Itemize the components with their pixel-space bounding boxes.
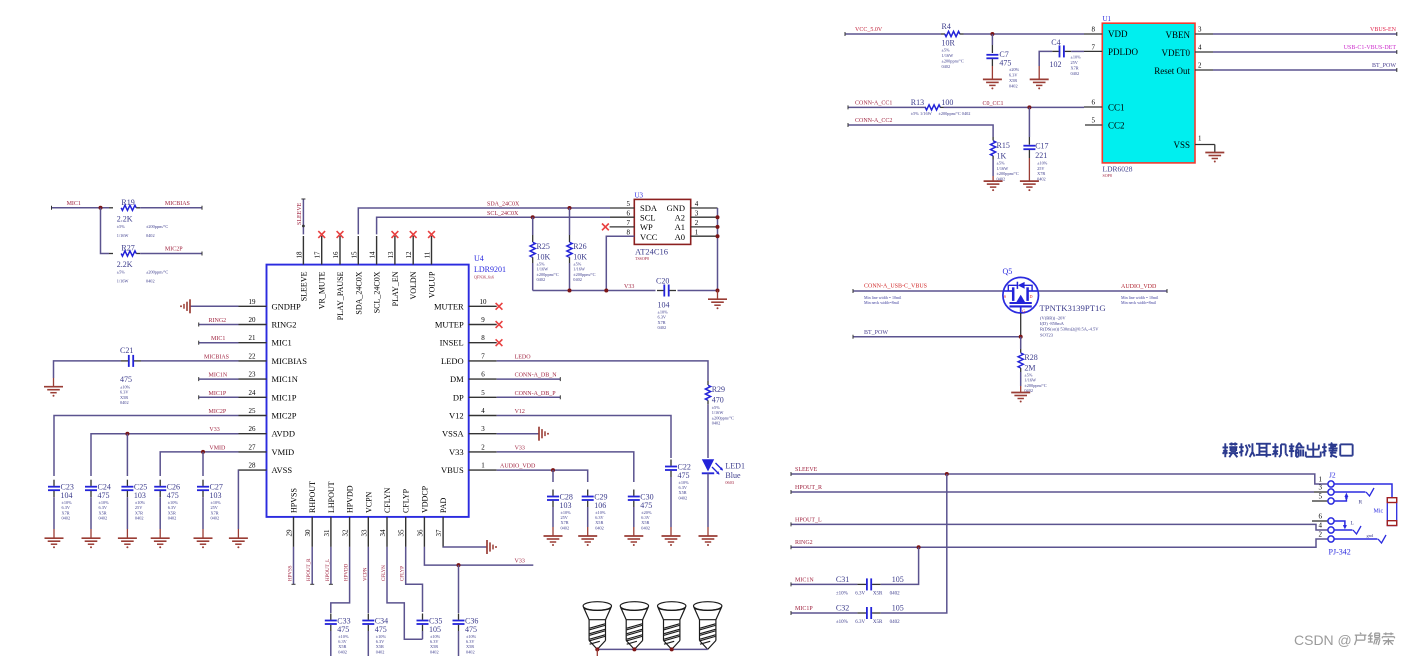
svg-text:104: 104: [658, 301, 670, 310]
svg-text:6: 6: [481, 371, 485, 379]
ground C23: [45, 537, 64, 539]
U1 pin stubs right: [1195, 33, 1213, 35]
svg-text:0402: 0402: [641, 525, 650, 530]
capacitor C26: [154, 486, 166, 488]
svg-text:LDR9201: LDR9201: [474, 265, 506, 274]
wire C32 to SLEEVE: [881, 474, 947, 613]
junction gate/BT_POW: [1019, 335, 1023, 339]
svg-text:VBUS-EN: VBUS-EN: [1370, 27, 1397, 33]
resistor R26: [568, 206, 572, 210]
svg-text:14: 14: [369, 251, 377, 259]
svg-text:8: 8: [627, 229, 631, 237]
wire MIC2P to C23: [54, 416, 239, 477]
capacitor C35: [417, 620, 429, 622]
svg-text:0402: 0402: [62, 516, 71, 521]
svg-text:13: 13: [387, 251, 395, 259]
svg-text:C21: C21: [120, 346, 133, 355]
svg-text:X7R: X7R: [1071, 66, 1079, 71]
svg-text:102: 102: [1050, 60, 1062, 69]
U1 VSS to ground: [1195, 144, 1215, 146]
svg-text:0402: 0402: [430, 649, 439, 654]
svg-text:SLEEVE: SLEEVE: [795, 467, 818, 473]
svg-text:10R: 10R: [942, 39, 956, 48]
svg-text:37: 37: [435, 529, 443, 537]
svg-text:MIC2P: MIC2P: [272, 411, 297, 421]
wire RING2 stub: [199, 324, 239, 326]
svg-text:V12: V12: [449, 411, 464, 421]
svg-text:V33: V33: [515, 559, 525, 565]
resistor R4: [941, 33, 945, 35]
LED LED1: [702, 458, 715, 460]
svg-text:C32: C32: [836, 604, 849, 613]
wire V33 rail (24C16): [533, 290, 656, 292]
svg-text:±5% 1/16W: ±5% 1/16W: [911, 111, 933, 116]
junction MIC1/R27: [99, 206, 103, 210]
svg-text:SLEEVE: SLEEVE: [299, 271, 308, 301]
svg-text:±5%: ±5%: [997, 161, 1006, 166]
wire SCL_24C0X: [377, 217, 610, 234]
svg-text:MIC1: MIC1: [272, 338, 292, 348]
svg-text:A2: A2: [675, 213, 685, 223]
U3 left pin stubs: [610, 207, 634, 209]
svg-text:2.2K: 2.2K: [117, 260, 133, 269]
svg-text:2M: 2M: [1024, 364, 1035, 373]
svg-text:105: 105: [892, 604, 904, 613]
svg-text:VCPN: VCPN: [363, 567, 368, 581]
wire BT_POW: [853, 336, 1021, 338]
svg-text:1: 1: [481, 462, 485, 470]
resistor R28: [1020, 337, 1022, 349]
wire AVSS down: [237, 470, 239, 529]
wire HPVDD to C33: [331, 547, 350, 613]
svg-text:±5%: ±5%: [942, 48, 951, 53]
svg-text:V33: V33: [449, 447, 464, 457]
ground LED1: [699, 535, 718, 537]
svg-text:0402: 0402: [120, 400, 129, 405]
svg-text:±200ppm/°C: ±200ppm/°C: [146, 224, 168, 229]
svg-text:D: D: [1030, 294, 1033, 299]
svg-text:RING2: RING2: [209, 318, 227, 324]
Mic element: [1387, 498, 1396, 526]
svg-text:6.3V: 6.3V: [855, 591, 865, 596]
junction R26 on V33: [568, 289, 572, 293]
svg-text:±5%: ±5%: [117, 224, 126, 229]
wire CFLYN to C35 bottom: [387, 547, 423, 639]
capacitor C34: [362, 620, 374, 622]
svg-text:PJ-342: PJ-342: [1329, 548, 1351, 557]
wire V33 to C30: [497, 452, 634, 482]
svg-text:R27: R27: [121, 244, 134, 253]
wire LEDO: [497, 361, 708, 381]
svg-text:12: 12: [405, 251, 413, 259]
svg-text:CC2: CC2: [1108, 121, 1125, 131]
svg-text:HPVDD: HPVDD: [345, 563, 350, 581]
svg-text:MICBIAS: MICBIAS: [272, 356, 308, 366]
svg-text:36: 36: [416, 529, 424, 537]
svg-text:(V(BR)) -20V: (V(BR)) -20V: [1040, 316, 1066, 321]
svg-text:U3: U3: [635, 191, 644, 199]
svg-text:INSEL: INSEL: [440, 338, 464, 348]
svg-text:0402: 0402: [595, 525, 604, 530]
svg-text:3: 3: [481, 425, 485, 433]
svg-text:104: 104: [61, 491, 73, 500]
junction VBUS/C28: [551, 468, 555, 472]
svg-text:2: 2: [1319, 531, 1323, 539]
capacitor C32: [866, 607, 868, 619]
U4 right pin stubs: [469, 305, 497, 307]
junction A1: [716, 225, 720, 229]
capacitor C31: [866, 578, 868, 590]
svg-text:USB-C1-VBUS-DET: USB-C1-VBUS-DET: [1344, 45, 1397, 51]
svg-text:X5R: X5R: [873, 591, 883, 596]
ground C28: [544, 535, 563, 537]
ground C7: [983, 78, 1002, 80]
svg-text:MUTER: MUTER: [434, 301, 464, 311]
wire R29 to LED1: [707, 404, 709, 458]
wire HPOUT_R stub (pin30): [311, 547, 313, 584]
svg-text:0402: 0402: [146, 279, 155, 284]
svg-text:6: 6: [1092, 99, 1096, 107]
svg-text:25: 25: [249, 407, 257, 415]
svg-text:VDD: VDD: [1108, 29, 1128, 39]
svg-text:PDLDO: PDLDO: [1108, 47, 1139, 57]
svg-text:105: 105: [429, 625, 441, 634]
wire CONN-A_USB-C_VBUS: [853, 290, 1003, 292]
svg-text:Min neck width=8mil: Min neck width=8mil: [864, 300, 900, 305]
svg-text:VSSA: VSSA: [442, 429, 465, 439]
svg-text:9: 9: [481, 316, 485, 324]
svg-text:4: 4: [695, 200, 699, 208]
junction SLEEVE/C32: [945, 472, 949, 476]
junction AVDD/C25: [125, 432, 129, 436]
no-connect X pin13: [392, 231, 399, 238]
svg-text:AVSS: AVSS: [272, 465, 293, 475]
svg-text:MICBIAS: MICBIAS: [165, 201, 190, 207]
svg-text:475: 475: [167, 491, 179, 500]
wire VBUS-EN: [1213, 33, 1397, 35]
svg-text:2.2K: 2.2K: [117, 215, 133, 224]
ground AVSS: [229, 537, 248, 539]
svg-text:28: 28: [249, 462, 257, 470]
svg-text:R26: R26: [573, 242, 586, 251]
svg-text:C31: C31: [836, 575, 849, 584]
svg-text:±10%: ±10%: [836, 591, 848, 596]
capacitor C17: [1028, 107, 1030, 137]
svg-text:34: 34: [379, 529, 387, 537]
svg-text:RING2: RING2: [272, 320, 297, 330]
wire U3 right tie-down: [717, 208, 719, 291]
wire GNDHP to ground: [190, 305, 239, 307]
wire C33 below: [330, 631, 332, 656]
junction screw1: [595, 647, 599, 651]
capacitor C28: [547, 496, 559, 498]
chip U1 LDR6028: [1102, 23, 1195, 163]
svg-text:Reset Out: Reset Out: [1154, 66, 1190, 76]
capacitor C36: [453, 620, 465, 622]
svg-text:HPVSS: HPVSS: [289, 565, 294, 581]
svg-text:475: 475: [337, 625, 349, 634]
svg-text:SCL_24C0X: SCL_24C0X: [487, 211, 519, 217]
svg-text:SCL: SCL: [640, 213, 656, 223]
junction A0: [716, 234, 720, 238]
svg-text:PAD: PAD: [439, 498, 448, 513]
svg-text:0402: 0402: [890, 620, 901, 625]
resistor R19: [109, 207, 113, 209]
wire R27 to MIC2P: [140, 253, 202, 255]
svg-text:0402: 0402: [573, 277, 582, 282]
svg-text:VR_MUTE: VR_MUTE: [318, 271, 327, 309]
wire screw gnd drop: [596, 649, 598, 656]
svg-text:VBEN: VBEN: [1166, 30, 1191, 40]
svg-text:CONN-A_DB_P: CONN-A_DB_P: [515, 391, 557, 397]
svg-text:0402: 0402: [376, 649, 385, 654]
svg-text:5: 5: [1319, 493, 1323, 501]
svg-text:±10%: ±10%: [1071, 55, 1082, 60]
wire VCPN to C34: [367, 547, 369, 613]
svg-text:U4: U4: [474, 254, 484, 263]
svg-text:RHPOUT: RHPOUT: [308, 481, 317, 513]
wire LED1 to ground: [707, 473, 709, 527]
wire MIC1 net: [52, 207, 110, 209]
svg-text:SOP8: SOP8: [1103, 173, 1112, 178]
junction C20 right: [716, 289, 720, 293]
wire junction to C28: [552, 470, 554, 482]
ground GNDHP (sideways): [189, 299, 191, 313]
svg-text:475: 475: [465, 625, 477, 634]
wire VDDCP V33: [424, 547, 533, 565]
resistor R15: [992, 137, 994, 141]
svg-text:SLEEVE: SLEEVE: [297, 202, 303, 225]
svg-text:0402: 0402: [99, 516, 108, 521]
svg-text:TPNTK3139PT1G: TPNTK3139PT1G: [1040, 303, 1106, 313]
svg-text:475: 475: [640, 501, 652, 510]
wire AVDD V33 to C24: [91, 434, 239, 476]
svg-text:23: 23: [249, 371, 257, 379]
svg-text:C20: C20: [656, 277, 669, 286]
junction A2: [716, 215, 720, 219]
svg-text:MIC1: MIC1: [211, 336, 225, 342]
no-connect X pin10 MUTER: [496, 303, 503, 310]
svg-text:I(D) -850mA: I(D) -850mA: [1040, 321, 1065, 326]
ground C22: [662, 535, 681, 537]
svg-text:105: 105: [892, 575, 904, 584]
wire RING2 net: [791, 539, 1328, 547]
svg-text:LHPOUT: LHPOUT: [327, 481, 336, 513]
svg-text:MIC2P: MIC2P: [209, 409, 227, 415]
svg-text:VMID: VMID: [272, 447, 295, 457]
J2 pin stubs: [1314, 491, 1328, 493]
no-connect X pin16: [337, 231, 344, 238]
svg-text:MIC1: MIC1: [67, 201, 81, 207]
wire VCC_5.0V net: [845, 33, 941, 35]
ground C26: [151, 537, 170, 539]
wire C4 left to ground: [1039, 51, 1052, 66]
svg-text:5: 5: [1092, 117, 1096, 125]
U4 top pin stubs: [302, 236, 304, 265]
svg-text:R25: R25: [537, 242, 550, 251]
svg-text:VMID: VMID: [209, 445, 226, 451]
svg-text:6: 6: [627, 210, 631, 218]
svg-text:VOLUP: VOLUP: [428, 271, 437, 298]
svg-text:TSSOP8: TSSOP8: [635, 256, 649, 261]
J2 pin pads: [1328, 481, 1334, 487]
svg-text:32: 32: [342, 529, 350, 537]
svg-text:A0: A0: [675, 232, 685, 242]
svg-text:VBUS: VBUS: [441, 465, 464, 475]
svg-text:CSDN @: CSDN @: [1294, 632, 1352, 648]
svg-text:1: 1: [1319, 476, 1323, 484]
svg-text:4: 4: [1198, 44, 1202, 52]
svg-text:BT_POW: BT_POW: [864, 330, 888, 336]
svg-text:7: 7: [627, 219, 631, 227]
svg-text:MIC1N: MIC1N: [209, 373, 228, 379]
screw 2: [620, 602, 648, 611]
wire HPOUT_L: [791, 524, 1328, 530]
svg-text:DP: DP: [453, 392, 464, 402]
svg-text:R28: R28: [1024, 353, 1037, 362]
wire C34 below: [367, 631, 369, 656]
svg-text:X5R: X5R: [1009, 78, 1017, 83]
svg-text:25V: 25V: [1071, 60, 1079, 65]
svg-text:30: 30: [304, 529, 312, 537]
capacitor C24: [85, 486, 97, 488]
op-amp U4 outline: [267, 265, 469, 517]
svg-text:Blue: Blue: [725, 471, 741, 480]
svg-text:1: 1: [1198, 135, 1202, 143]
capacitor C20: [663, 285, 665, 297]
svg-text:V33: V33: [624, 284, 634, 290]
resistor R25: [531, 215, 535, 219]
svg-text:475: 475: [678, 471, 690, 480]
junction VDDCP/C36: [457, 563, 461, 567]
svg-text:106: 106: [594, 501, 606, 510]
svg-text:HPVDD: HPVDD: [346, 485, 355, 513]
wire MIC1 stub (pin21): [199, 342, 239, 344]
wire C4 to U1 PDLDO: [1071, 50, 1084, 52]
svg-text:1/16W: 1/16W: [117, 279, 130, 284]
svg-text:5: 5: [481, 389, 485, 397]
svg-text:475: 475: [375, 625, 387, 634]
U1 pin stubs left: [1084, 33, 1102, 35]
svg-text:6: 6: [1319, 513, 1323, 521]
svg-text:SDA_24C0X: SDA_24C0X: [354, 271, 363, 314]
svg-text:1/16W: 1/16W: [117, 233, 130, 238]
transistor Q5: [1003, 277, 1039, 313]
svg-text:CFLYP: CFLYP: [401, 566, 406, 581]
svg-text:0402: 0402: [1071, 71, 1080, 76]
svg-text:HPOUT_L: HPOUT_L: [795, 517, 822, 523]
svg-text:0603: 0603: [725, 480, 734, 485]
svg-text:MIC1P: MIC1P: [795, 606, 813, 612]
wire MIC1P stub: [199, 396, 239, 398]
svg-text:MUTEP: MUTEP: [435, 320, 464, 330]
capacitor C25: [121, 486, 133, 488]
svg-text:V33: V33: [209, 427, 219, 433]
svg-text:0402: 0402: [338, 649, 347, 654]
svg-text:±200ppm/°C: ±200ppm/°C: [997, 171, 1019, 176]
svg-text:4: 4: [481, 407, 485, 415]
svg-text:MIC1N: MIC1N: [795, 577, 814, 583]
svg-text:2: 2: [481, 443, 485, 451]
J2 pin4 L contact: [1334, 529, 1352, 531]
svg-text:35: 35: [398, 529, 406, 537]
svg-text:LEDO: LEDO: [441, 356, 464, 366]
svg-text:CONN-A_DB_N: CONN-A_DB_N: [515, 373, 558, 379]
svg-text:8: 8: [481, 334, 485, 342]
J2 pin5 riser: [1334, 496, 1346, 502]
svg-text:WP: WP: [640, 222, 653, 232]
resistor R29: [707, 381, 709, 385]
svg-text:25V: 25V: [1037, 166, 1045, 171]
wire VMID to C26: [160, 452, 238, 476]
svg-text:±200ppm/°C 0402: ±200ppm/°C 0402: [939, 111, 971, 116]
ground C30: [624, 535, 643, 537]
svg-text:AVDD: AVDD: [272, 429, 295, 439]
wire R19 to MICBIAS: [140, 207, 202, 209]
junction CC1/C17: [1027, 105, 1031, 109]
wire SDA_24C0X: [358, 208, 610, 234]
svg-text:CC1: CC1: [1108, 103, 1125, 113]
wire junction to C27: [202, 452, 204, 476]
svg-text:R: R: [1359, 500, 1363, 506]
ground VSSA (sideways): [538, 427, 540, 441]
wire AUDIO_VDD (Q5): [1039, 290, 1168, 292]
svg-text:0402: 0402: [466, 649, 475, 654]
wire HPVSS stub (pin29): [293, 547, 295, 584]
svg-text:J2: J2: [1329, 471, 1336, 480]
svg-text:AUDIO_VDD: AUDIO_VDD: [1121, 284, 1157, 290]
svg-text:0402: 0402: [537, 277, 546, 282]
wire SLEEVE (pin18): [302, 199, 304, 234]
capacitor C27: [197, 486, 209, 488]
svg-text:AUDIO_VDD: AUDIO_VDD: [500, 464, 536, 470]
screw 3: [658, 602, 686, 611]
svg-text:3: 3: [1198, 26, 1202, 34]
svg-text:C17: C17: [1035, 142, 1048, 151]
svg-text:R15: R15: [997, 141, 1010, 150]
title 模拟耳机输出接口: [1224, 443, 1226, 457]
svg-text:HPOUT_R: HPOUT_R: [307, 558, 312, 581]
wire CONN-A_CC1: [848, 106, 926, 108]
wire R4 to U1 VDD: [964, 33, 1085, 35]
wire MICBIAS: [141, 360, 239, 362]
svg-text:SCL_24C0X: SCL_24C0X: [373, 271, 382, 313]
svg-text:RING2: RING2: [795, 540, 813, 546]
svg-text:C4: C4: [1051, 38, 1060, 47]
svg-text:VCPN: VCPN: [364, 491, 373, 513]
svg-text:24: 24: [249, 389, 257, 397]
svg-text:103: 103: [134, 491, 146, 500]
svg-text:2: 2: [695, 219, 699, 227]
svg-text:VDET0: VDET0: [1162, 48, 1191, 58]
svg-text:Min neck width=8mil: Min neck width=8mil: [1121, 300, 1157, 305]
no-connect X pin12: [410, 231, 417, 238]
svg-text:18: 18: [295, 251, 303, 259]
resistor R13: [925, 105, 940, 110]
svg-text:LED1: LED1: [725, 462, 745, 471]
capacitor C22: [665, 466, 677, 468]
svg-text:31: 31: [323, 529, 331, 537]
svg-text:LEDO: LEDO: [515, 354, 532, 360]
wire CFLYP to C35 top: [406, 547, 423, 612]
svg-text:±10%: ±10%: [1037, 161, 1048, 166]
svg-text:CONN-A_USB-C_VBUS: CONN-A_USB-C_VBUS: [864, 284, 927, 290]
svg-text:MIC1P: MIC1P: [272, 392, 297, 402]
svg-text:GNDHP: GNDHP: [272, 301, 302, 311]
svg-text:±20%: ±20%: [1009, 67, 1020, 72]
svg-text:SDA_24C0X: SDA_24C0X: [487, 202, 520, 208]
svg-text:G: G: [1022, 309, 1025, 314]
